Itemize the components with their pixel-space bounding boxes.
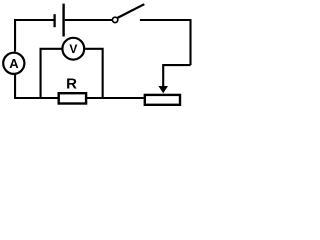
svg-text:R: R [66, 75, 77, 92]
ammeter A circle [3, 53, 24, 74]
rheostat box [145, 95, 180, 105]
rheostat slider arrowhead [158, 86, 168, 93]
wire switch to top-right corner and right drop [140, 20, 191, 65]
svg-text:V: V [69, 42, 77, 56]
wire rheostat slider feed (horizontal + shaft) [163, 65, 190, 88]
wire battery to switch [65, 19, 113, 21]
wire ammeter to bottom rail [14, 75, 16, 99]
switch S1 hinge circle [112, 17, 117, 22]
resistor R box [59, 93, 86, 103]
switch S1 open blade [118, 4, 145, 18]
wire voltmeter loop left [41, 49, 62, 98]
battery B1 positive plate (long) [62, 4, 64, 37]
battery B1 negative plate (short) [53, 14, 55, 27]
wire voltmeter loop right [85, 49, 102, 98]
voltmeter V circle [62, 38, 84, 60]
wire bottom rail y=98 [14, 97, 144, 99]
svg-text:A: A [9, 56, 19, 71]
wire top-left L (top wire to battery, left drop to ammeter) [15, 20, 54, 52]
